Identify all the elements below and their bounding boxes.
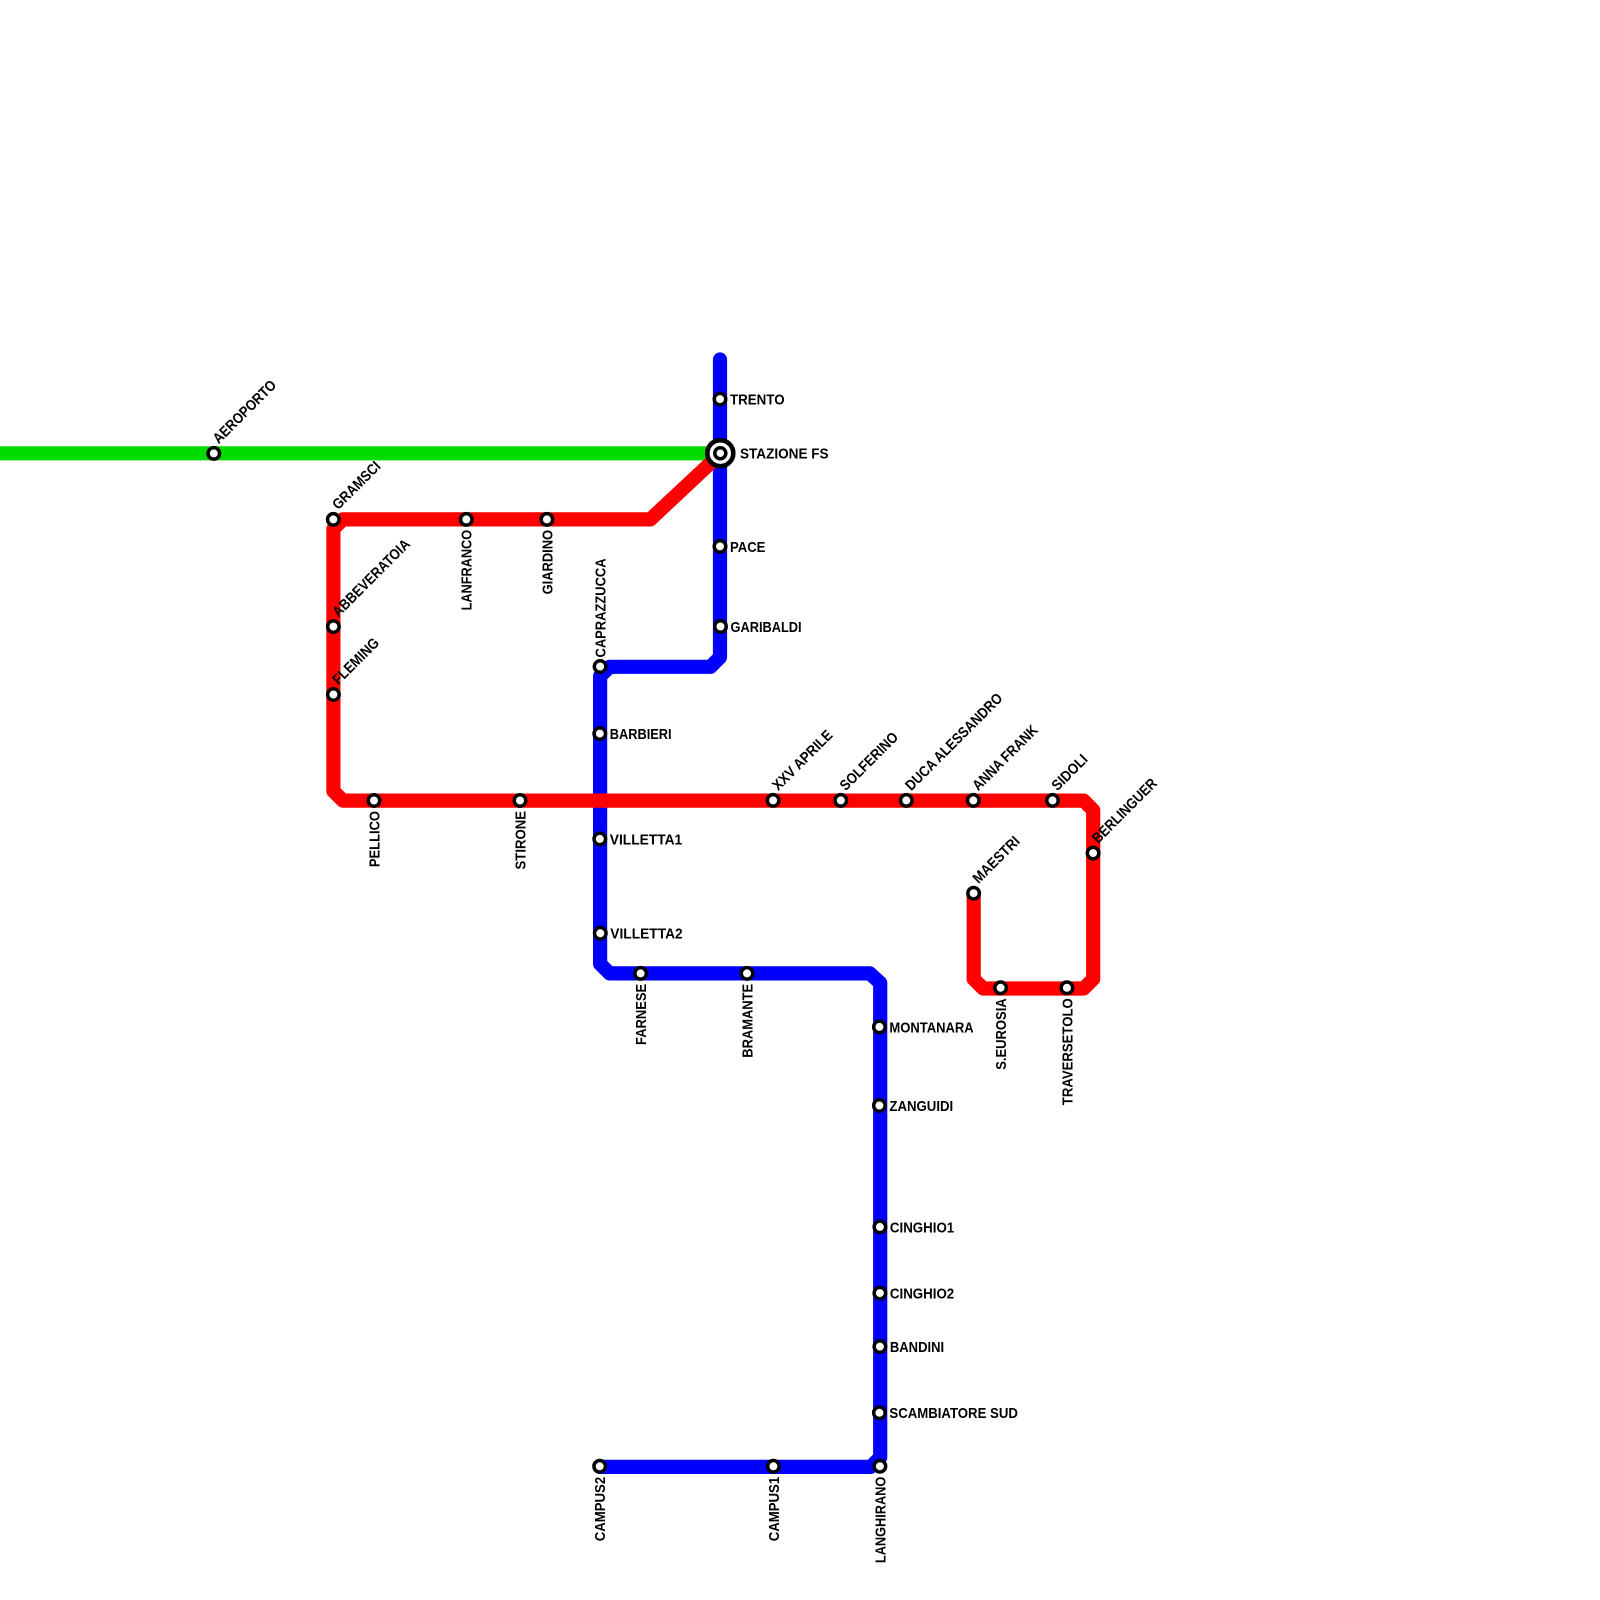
station ANNA FRANK: [968, 795, 980, 807]
svg-text:TRENTO: TRENTO: [730, 393, 785, 409]
station PACE: [714, 541, 726, 553]
station FLEMING: [328, 689, 340, 701]
blue line (Trento - Campus2): [600, 360, 881, 1467]
svg-text:S.EUROSIA: S.EUROSIA: [994, 998, 1010, 1070]
station FARNESE: [635, 968, 647, 980]
station CAMPUS1: [768, 1461, 780, 1473]
station GRAMSCI: [328, 514, 340, 526]
station CAPRAZZUCCA: [594, 661, 606, 673]
svg-text:TRAVERSETOLO: TRAVERSETOLO: [1060, 998, 1076, 1105]
station MAESTRI: [968, 887, 980, 899]
station SIDOLI: [1047, 795, 1059, 807]
svg-text:STIRONE: STIRONE: [513, 811, 529, 870]
station CINGHIO1: [874, 1221, 886, 1233]
station CINGHIO2: [874, 1287, 886, 1299]
station SCAMBIATORE SUD: [874, 1407, 886, 1419]
svg-text:FARNESE: FARNESE: [634, 984, 650, 1045]
svg-text:BANDINI: BANDINI: [890, 1340, 944, 1356]
station BRAMANTE: [741, 968, 753, 980]
svg-text:SCAMBIATORE SUD: SCAMBIATORE SUD: [889, 1406, 1018, 1422]
station AEROPORTO: [208, 448, 220, 460]
wire blue junction cap upper: [593, 788, 607, 802]
svg-text:VILLETTA1: VILLETTA1: [610, 832, 682, 848]
station VILLETTA1: [594, 833, 606, 845]
station SOLFERINO: [835, 795, 847, 807]
station GIARDINO: [541, 514, 553, 526]
station MONTANARA: [874, 1021, 886, 1033]
svg-text:CINGHIO2: CINGHIO2: [890, 1287, 954, 1303]
station BARBIERI: [594, 728, 606, 740]
wire blue junction cap lower: [593, 799, 607, 813]
red line (Stazione FS - Maestri): [333, 464, 1093, 989]
station S.EUROSIA: [995, 982, 1007, 994]
svg-text:CINGHIO1: CINGHIO1: [890, 1220, 954, 1236]
green line (Aeroporto branch): [0, 446, 714, 460]
svg-text:LANGHIRANO: LANGHIRANO: [873, 1477, 889, 1563]
svg-text:CAPRAZZUCCA: CAPRAZZUCCA: [594, 558, 610, 657]
svg-text:CAMPUS2: CAMPUS2: [593, 1477, 609, 1542]
station LANGHIRANO: [874, 1460, 886, 1472]
svg-text:VILLETTA2: VILLETTA2: [610, 927, 682, 943]
svg-text:GIARDINO: GIARDINO: [540, 530, 556, 595]
svg-text:LANFRANCO: LANFRANCO: [460, 530, 476, 611]
station CAMPUS2: [594, 1461, 606, 1473]
station PELLICO: [368, 795, 380, 807]
station VILLETTA2: [595, 928, 607, 940]
station DUCA ALESSANDRO: [901, 795, 913, 807]
station TRAVERSETOLO: [1061, 982, 1073, 994]
svg-text:MONTANARA: MONTANARA: [889, 1020, 974, 1036]
station LANFRANCO: [461, 514, 473, 526]
station BANDINI: [874, 1341, 886, 1353]
station XXV APRILE: [767, 795, 779, 807]
station ZANGUIDI: [874, 1100, 886, 1112]
svg-text:GARIBALDI: GARIBALDI: [731, 620, 802, 636]
interchange STAZIONE FS: [707, 440, 733, 466]
svg-text:STAZIONE FS: STAZIONE FS: [740, 447, 829, 463]
svg-text:BARBIERI: BARBIERI: [610, 727, 672, 743]
station GARIBALDI: [715, 621, 727, 633]
svg-text:BRAMANTE: BRAMANTE: [740, 984, 756, 1058]
station BERLINGUER: [1087, 847, 1099, 859]
station TRENTO: [714, 393, 726, 405]
svg-text:CAMPUS1: CAMPUS1: [767, 1477, 783, 1542]
svg-text:ZANGUIDI: ZANGUIDI: [889, 1099, 953, 1115]
svg-text:PACE: PACE: [730, 540, 766, 556]
station ABBEVERATOIA: [328, 621, 340, 633]
svg-text:PELLICO: PELLICO: [367, 811, 383, 867]
station STIRONE: [514, 795, 526, 807]
